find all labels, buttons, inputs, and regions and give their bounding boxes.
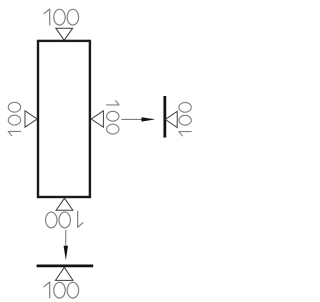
arrowhead (down) — [64, 246, 68, 261]
connection arrow line to bottom busbar — [65, 230, 67, 247]
busbar (bottom) — [37, 264, 94, 267]
flow terminal triangle (bottom busbar) — [56, 267, 74, 280]
value label 100 (bottom busbar) — [44, 282, 79, 298]
arrowhead (right) — [142, 117, 156, 121]
busbar (right) — [163, 96, 166, 138]
flow terminal triangle (left) — [25, 111, 37, 127]
value label 100 (right of rectangle, rotated) — [107, 101, 120, 134]
value label 100 (left, rotated) — [8, 102, 21, 135]
value label 100 (right busbar, rotated) — [179, 102, 192, 135]
flow terminal triangle (right busbar) — [165, 111, 177, 127]
branch element (rectangle body) — [38, 41, 90, 197]
connection arrow line to right busbar — [121, 118, 143, 120]
flow terminal triangle (top) — [56, 28, 73, 40]
flow terminal triangle (right) — [91, 111, 103, 127]
value label 100 (top) — [44, 9, 79, 25]
flow terminal triangle (bottom of rectangle) — [56, 198, 73, 210]
value label 100 (bottom, rotated 180) — [46, 211, 83, 228]
